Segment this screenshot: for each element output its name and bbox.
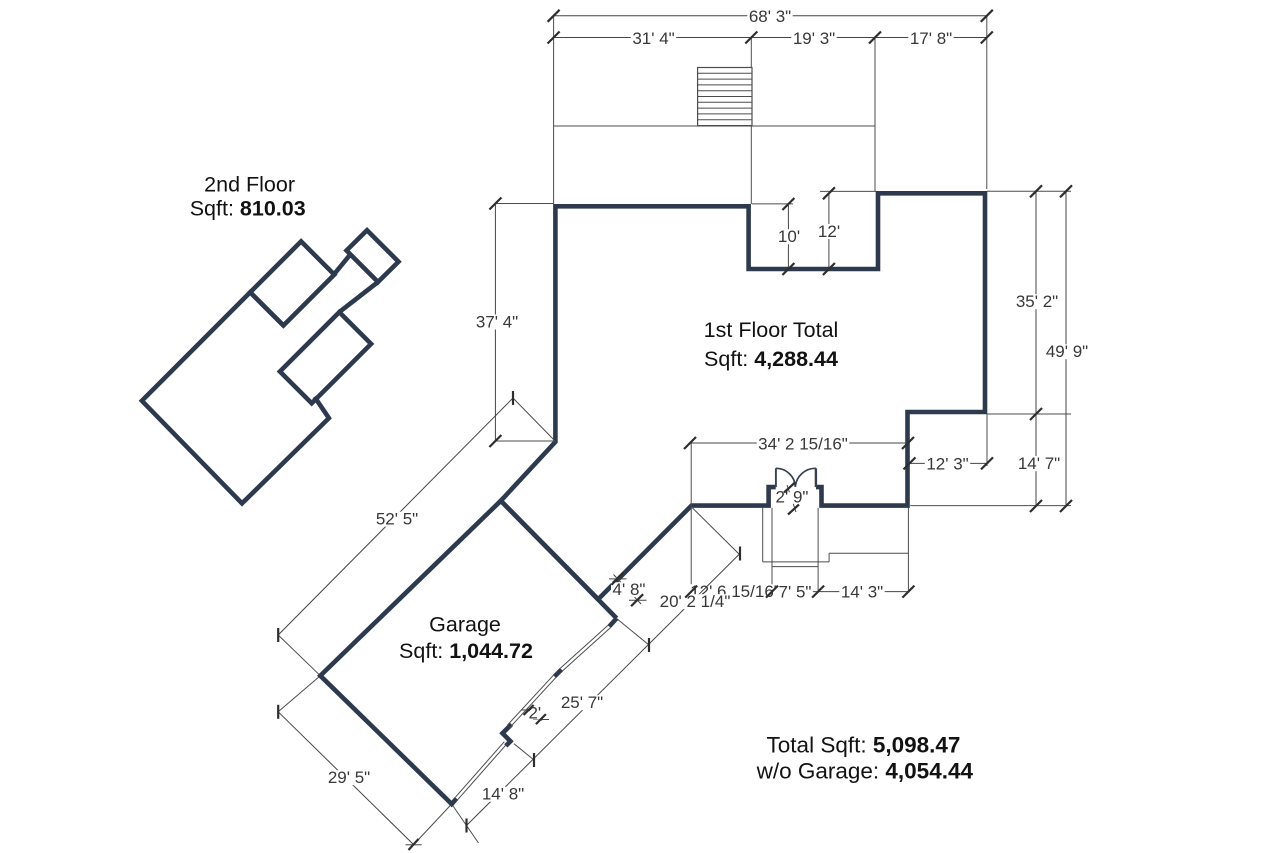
svg-text:17' 8": 17' 8" (910, 29, 952, 48)
leader corner to 52' 5" end (513, 398, 556, 442)
svg-text:49' 9": 49' 9" (1046, 342, 1088, 361)
svg-text:34' 2 15/16": 34' 2 15/16" (758, 434, 848, 453)
svg-text:14' 3": 14' 3" (841, 582, 883, 601)
svg-text:25' 7": 25' 7" (561, 693, 603, 712)
dimension 12' 3" (910, 455, 988, 474)
stairs hatch (698, 68, 752, 126)
dimension 12' notch (816, 193, 841, 269)
svg-text:Sqft: 810.03: Sqft: 810.03 (190, 197, 306, 221)
leader garage B corner to 29' 5" end (410, 804, 452, 849)
leader garage R corner to chain (617, 619, 649, 646)
wall: 2nd floor main body polygon (142, 292, 329, 503)
dimension chain 31' 4" / 19' 3" / 17' 8" (554, 29, 987, 48)
dimension chain 12' 6 15/16" / 7' 5" / 14' 3" (689, 582, 909, 601)
dimension 35' 2" and 14' 7" vertical x=1036 (1014, 191, 1061, 506)
right side extension lines (910, 191, 1071, 505)
dimension 10' notch (752, 204, 802, 269)
svg-text:Sqft: 1,044.72: Sqft: 1,044.72 (399, 639, 533, 663)
svg-text:Total Sqft: 5,098.47: Total Sqft: 5,098.47 (767, 733, 961, 758)
svg-text:1st Floor Total: 1st Floor Total (704, 318, 839, 342)
svg-text:Garage: Garage (429, 613, 501, 637)
tick marks layer (drawn on top) (278, 10, 1072, 850)
dimension 29' 5" diagonal (278, 712, 421, 845)
wire: connector y=441 at left wall corner (495, 440, 555, 442)
svg-text:14' 7": 14' 7" (1018, 454, 1060, 473)
svg-text:19' 3": 19' 3" (793, 29, 835, 48)
svg-text:14' 8": 14' 8" (482, 785, 524, 804)
wall: 1st floor main outline (501, 193, 985, 599)
dimension 37' 4" vertical (474, 204, 553, 442)
wire: top extension vertical x=751.3 (750, 38, 752, 205)
dimension chain 20' 2 1/4" / 25' 7" / 14' 8" diagonal (467, 554, 741, 826)
svg-text:68' 3": 68' 3" (749, 7, 791, 26)
dimension 4' 8" (609, 575, 647, 605)
door: double french door arcs (776, 468, 816, 487)
wall: 2nd floor arm line SE (E corner to D corner) (339, 282, 378, 312)
svg-text:2' 9": 2' 9" (776, 488, 809, 507)
wall: garage outline (320, 501, 616, 804)
label: Garage (399, 613, 533, 664)
svg-text:37' 4": 37' 4" (476, 312, 518, 331)
leader garage B corner to chain end (452, 804, 479, 843)
porch outline below door (763, 508, 909, 592)
svg-text:29' 5": 29' 5" (328, 768, 370, 787)
svg-text:12': 12' (818, 222, 840, 241)
svg-text:20' 2 1/4": 20' 2 1/4" (660, 592, 731, 611)
svg-text:Sqft: 4,288.44: Sqft: 4,288.44 (704, 347, 838, 371)
wire: upper horizontal projection line y=126 (554, 125, 875, 127)
svg-text:w/o Garage: 4,054.44: w/o Garage: 4,054.44 (756, 758, 974, 783)
wire: top extension vertical left x=553.6 (553, 16, 555, 204)
wall: 2nd floor arm line NW (B corner to D) (334, 255, 350, 274)
leader jog to chain (514, 744, 534, 760)
dimension 34' 2 15/16" (690, 434, 908, 591)
svg-text:52' 5": 52' 5" (376, 510, 418, 529)
label: 2nd Floor (190, 173, 306, 221)
svg-text:2nd Floor: 2nd Floor (204, 173, 295, 197)
wire: top extension vertical x=875 (874, 38, 876, 192)
svg-text:35' 2": 35' 2" (1016, 292, 1058, 311)
wire: top extension vertical right x=986.8 (986, 16, 988, 189)
leader corner to 20' 2 1/4" (692, 507, 741, 555)
svg-text:31' 4": 31' 4" (632, 29, 674, 48)
garage door double lines (455, 625, 610, 799)
label: totals (756, 733, 974, 784)
wire: horizontal projection y=191.4 left of notch (820, 190, 877, 192)
wall: 2nd floor rect E (mid) (280, 312, 371, 403)
dimension 49' 9" vertical x=1066 (1044, 191, 1089, 506)
leader garage L corner to 52' 5" end (278, 635, 320, 676)
wall: 2nd floor rect D (square) (347, 230, 399, 282)
svg-text:10': 10' (778, 227, 800, 246)
dimension 2' garage jog (521, 704, 549, 723)
dimension 2' 9" door leaf (776, 485, 809, 512)
leader garage L corner to 29' 5" start (278, 676, 320, 712)
dimension 68' 3" line (554, 7, 987, 26)
dimension 52' 5" diagonal (278, 398, 513, 635)
svg-text:12' 3": 12' 3" (926, 455, 968, 474)
wall: 2nd floor rect B (upper) (250, 241, 334, 325)
label: 1st Floor Total (704, 318, 839, 371)
svg-text:7' 5": 7' 5" (779, 582, 812, 601)
